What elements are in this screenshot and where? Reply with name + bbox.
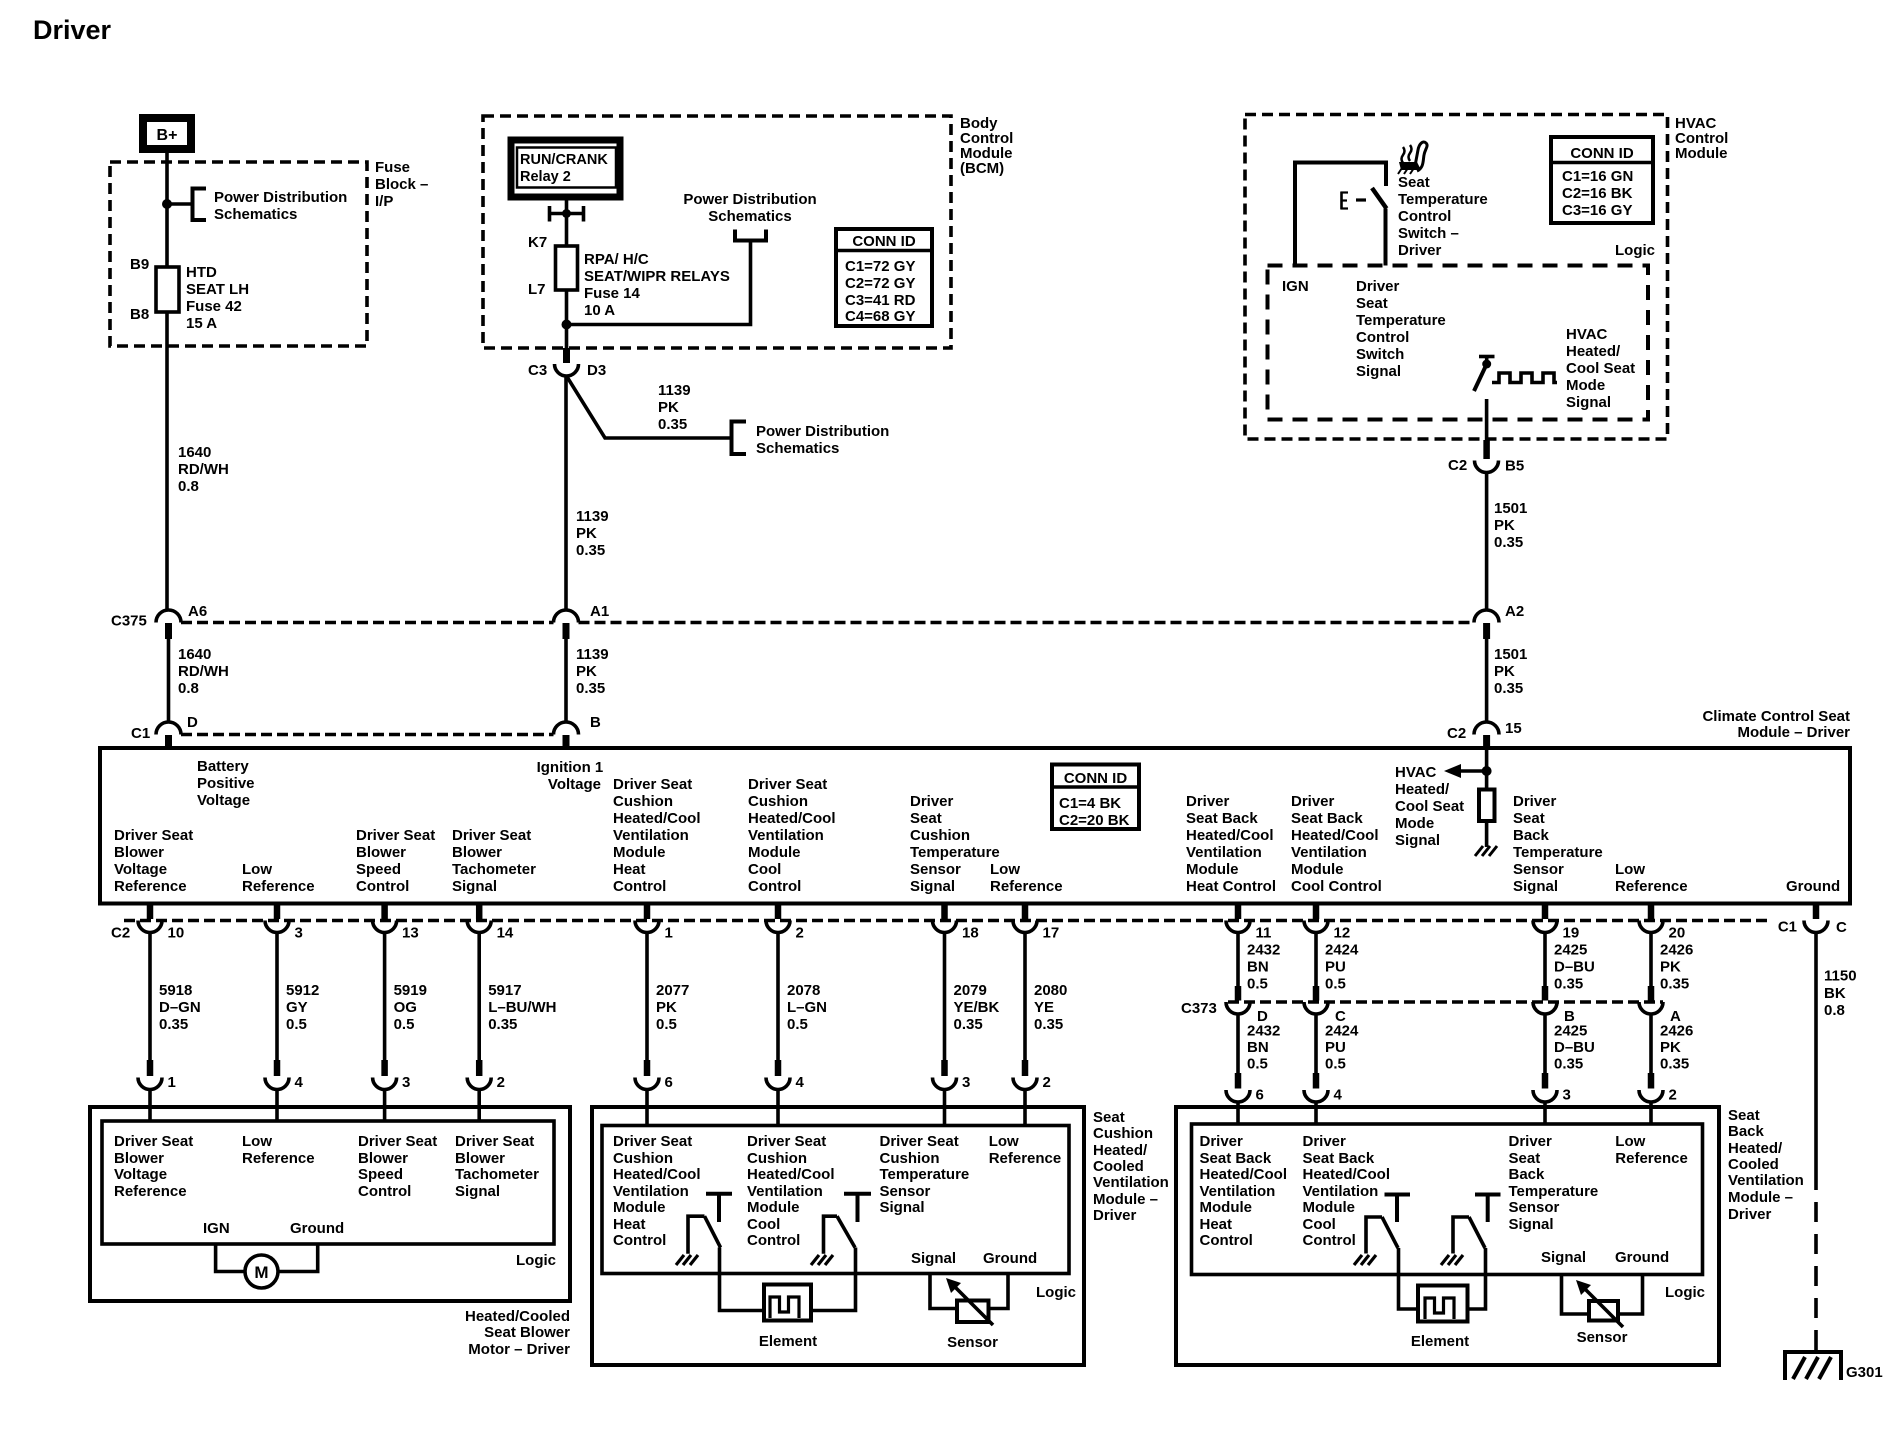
pin label cushion temperature sensor signal xyxy=(910,793,1000,895)
svg-text:Temperature: Temperature xyxy=(1356,312,1446,329)
seat back sensor xyxy=(1576,1280,1628,1346)
ground hatch cool switch xyxy=(811,1255,833,1265)
connector row C2 dashed line xyxy=(124,919,1772,923)
cushion label temperature sensor xyxy=(880,1133,970,1216)
svg-text:Voltage: Voltage xyxy=(114,861,167,878)
off-page bracket power distribution BCM xyxy=(735,230,766,241)
svg-text:D–BU: D–BU xyxy=(1554,959,1595,976)
svg-text:C375: C375 xyxy=(111,613,147,630)
svg-text:C: C xyxy=(1836,919,1847,936)
wire to power distribution tap xyxy=(167,202,193,206)
svg-text:D–BU: D–BU xyxy=(1554,1039,1595,1056)
svg-text:17: 17 xyxy=(1043,925,1060,942)
node junction in fuse block xyxy=(162,199,172,209)
wire C3/D3 down to A1 xyxy=(564,376,568,610)
svg-text:Signal: Signal xyxy=(911,1250,956,1267)
svg-text:Sensor: Sensor xyxy=(880,1183,931,1200)
svg-text:Reference: Reference xyxy=(1615,878,1688,895)
svg-text:0.5: 0.5 xyxy=(656,1016,677,1033)
svg-text:Control: Control xyxy=(748,878,801,895)
svg-text:Voltage: Voltage xyxy=(548,776,601,793)
svg-text:Heated/Cooled: Heated/Cooled xyxy=(465,1308,570,1325)
svg-text:Cool Seat: Cool Seat xyxy=(1395,798,1464,815)
wire resistor to internal ground xyxy=(1485,821,1489,847)
wire Ground to motor xyxy=(279,1244,318,1272)
wire label 2426 PK 0.35 lower xyxy=(1660,1023,1693,1073)
connector C2 pin 18 xyxy=(933,904,979,942)
wire seat back sensor signal xyxy=(1562,1275,1590,1315)
wire label 2078 L-GN 0.5 xyxy=(787,982,827,1033)
svg-text:1: 1 xyxy=(665,925,673,942)
svg-text:GY: GY xyxy=(286,999,308,1016)
svg-text:RUN/CRANK: RUN/CRANK xyxy=(520,152,608,168)
svg-text:B8: B8 xyxy=(130,306,149,323)
svg-text:5912: 5912 xyxy=(286,982,319,999)
ground hatch heat switch xyxy=(676,1255,698,1265)
svg-text:Sensor: Sensor xyxy=(1509,1199,1560,1216)
fuse F14 RPA/H/C xyxy=(528,234,730,319)
svg-text:OG: OG xyxy=(394,999,417,1016)
wire pin13 down xyxy=(383,933,387,1061)
svg-text:Driver Seat: Driver Seat xyxy=(748,776,827,793)
svg-text:K7: K7 xyxy=(528,234,547,251)
svg-text:C2: C2 xyxy=(111,925,130,942)
svg-text:12: 12 xyxy=(1334,925,1351,942)
HVAC mode signal label inside module xyxy=(1395,764,1464,849)
svg-text:Tachometer: Tachometer xyxy=(455,1166,539,1183)
connector C2 pin 20 xyxy=(1639,904,1685,942)
svg-text:Driver: Driver xyxy=(1509,1133,1553,1150)
CONN ID table module xyxy=(1052,765,1139,830)
wire label 2425 D-BU 0.35 xyxy=(1554,942,1595,993)
switch label xyxy=(1398,174,1488,259)
svg-text:Low: Low xyxy=(1615,861,1645,878)
fuse F42 HTD SEAT LH xyxy=(130,256,249,332)
svg-text:Back: Back xyxy=(1513,827,1550,844)
svg-text:Cool: Cool xyxy=(1303,1216,1336,1233)
blower label low reference xyxy=(242,1133,315,1167)
blower motor module outer box xyxy=(90,1107,570,1301)
svg-text:2079: 2079 xyxy=(954,982,987,999)
svg-text:SEAT LH: SEAT LH xyxy=(186,281,249,298)
svg-text:2425: 2425 xyxy=(1554,942,1587,959)
svg-text:Control: Control xyxy=(1356,329,1409,346)
cushion module logic inner box xyxy=(602,1126,1069,1274)
svg-text:Reference: Reference xyxy=(1615,1150,1688,1167)
BCM label xyxy=(960,115,1013,177)
driver seat temperature control switch signal label xyxy=(1356,278,1446,380)
svg-text:1501: 1501 xyxy=(1494,646,1527,663)
svg-text:Signal: Signal xyxy=(452,878,497,895)
svg-text:Driver: Driver xyxy=(1093,1207,1137,1224)
svg-text:0.5: 0.5 xyxy=(1247,976,1268,993)
svg-text:2: 2 xyxy=(796,925,804,942)
svg-text:4: 4 xyxy=(796,1074,805,1091)
svg-text:G301: G301 xyxy=(1846,1364,1883,1381)
svg-text:Signal: Signal xyxy=(455,1183,500,1200)
connector C2 pin 11 xyxy=(1226,904,1271,942)
svg-text:1640: 1640 xyxy=(178,444,211,461)
svg-text:10: 10 xyxy=(168,925,185,942)
svg-text:Control: Control xyxy=(358,1183,411,1200)
svg-text:Back: Back xyxy=(1728,1123,1765,1140)
svg-text:0.35: 0.35 xyxy=(1554,976,1583,993)
wire C373 B down xyxy=(1543,1014,1547,1073)
svg-text:Ventilation: Ventilation xyxy=(1200,1183,1276,1200)
svg-text:Heated/Cool: Heated/Cool xyxy=(613,1166,701,1183)
svg-text:L–BU/WH: L–BU/WH xyxy=(488,999,556,1016)
svg-text:2432: 2432 xyxy=(1247,1023,1280,1040)
svg-text:Ventilation: Ventilation xyxy=(748,827,824,844)
svg-text:Seat: Seat xyxy=(1356,295,1388,312)
wire label 5918 D-GN 0.35 xyxy=(159,982,201,1033)
svg-text:Module: Module xyxy=(1303,1199,1356,1216)
blower module name xyxy=(465,1308,570,1358)
svg-text:BN: BN xyxy=(1247,959,1269,976)
connector cushion pin 2 xyxy=(1013,1060,1051,1126)
seat back label heat control xyxy=(1200,1133,1288,1249)
svg-text:SEAT/WIPR RELAYS: SEAT/WIPR RELAYS xyxy=(584,268,730,285)
svg-text:Control: Control xyxy=(1303,1232,1356,1249)
connector cushion pin 6 xyxy=(635,1060,673,1126)
wire A2 to 15 xyxy=(1485,639,1489,722)
ground G301 xyxy=(1785,1352,1883,1381)
connector C373 pin D xyxy=(1226,986,1268,1025)
svg-text:Speed: Speed xyxy=(356,861,401,878)
climate control seat module box xyxy=(100,748,1850,904)
svg-text:Reference: Reference xyxy=(242,1150,315,1167)
B+ battery feed symbol xyxy=(143,118,191,149)
pin label driver seat blower speed control xyxy=(356,827,435,895)
svg-text:20: 20 xyxy=(1669,925,1686,942)
svg-text:Low: Low xyxy=(989,1133,1019,1150)
seat back label temperature sensor xyxy=(1509,1133,1599,1233)
svg-text:PU: PU xyxy=(1325,959,1346,976)
svg-text:Low: Low xyxy=(990,861,1020,878)
svg-text:Signal: Signal xyxy=(910,878,955,895)
wire label 2424 PU 0.5 lower xyxy=(1325,1023,1359,1073)
pin label driver seat blower voltage reference xyxy=(114,827,193,895)
svg-text:18: 18 xyxy=(962,925,979,942)
svg-text:Logic: Logic xyxy=(1615,242,1655,259)
svg-text:Cool: Cool xyxy=(748,861,781,878)
svg-text:Module: Module xyxy=(747,1199,800,1216)
HVAC control module dashed box xyxy=(1245,115,1668,440)
blower label speed control xyxy=(358,1133,437,1200)
svg-text:Ventilation: Ventilation xyxy=(1303,1183,1379,1200)
svg-text:Seat: Seat xyxy=(1398,174,1430,191)
svg-text:Ignition 1: Ignition 1 xyxy=(537,759,604,776)
svg-text:Driver: Driver xyxy=(1291,793,1335,810)
wire label 2426 PK 0.35 xyxy=(1660,942,1693,993)
svg-text:0.8: 0.8 xyxy=(1824,1002,1845,1019)
svg-text:1139: 1139 xyxy=(576,508,609,525)
svg-text:BK: BK xyxy=(1824,985,1846,1002)
svg-text:Logic: Logic xyxy=(1036,1284,1076,1301)
svg-text:Temperature: Temperature xyxy=(1513,844,1603,861)
wire 15 into module with arrow tap xyxy=(1485,750,1489,790)
wire pin20 down xyxy=(1649,933,1653,987)
svg-text:Fuse 14: Fuse 14 xyxy=(584,285,641,302)
blower motor logic inner box xyxy=(102,1121,554,1244)
wire pin18 down xyxy=(943,933,947,1061)
svg-text:Module: Module xyxy=(613,844,666,861)
svg-text:Mode: Mode xyxy=(1566,377,1605,394)
svg-text:Driver: Driver xyxy=(1186,793,1230,810)
fuse block label xyxy=(375,159,428,210)
svg-text:2080: 2080 xyxy=(1034,982,1067,999)
svg-text:2426: 2426 xyxy=(1660,1023,1693,1040)
wire label 1150 BK 0.8 xyxy=(1824,968,1857,1020)
wire label 5917 L-BU/WH 0.35 xyxy=(488,982,556,1033)
connector C2 pin 1 xyxy=(635,904,673,942)
svg-text:0.5: 0.5 xyxy=(1325,976,1346,993)
svg-text:PK: PK xyxy=(1660,1039,1681,1056)
wire label 1139 PK 0.35 xyxy=(576,508,609,559)
connector C2/B5 xyxy=(1448,440,1524,475)
relay RUN/CRANK Relay 2 xyxy=(511,140,620,197)
wire sensor ground xyxy=(989,1274,1009,1309)
wire seat back cool switch to element xyxy=(1468,1248,1486,1309)
seat back module logic inner box xyxy=(1192,1124,1703,1275)
svg-text:Back: Back xyxy=(1509,1166,1546,1183)
wire pin2 down xyxy=(776,933,780,1061)
svg-text:Ventilation: Ventilation xyxy=(613,1183,689,1200)
svg-text:C2: C2 xyxy=(1448,457,1467,474)
svg-text:Temperature: Temperature xyxy=(1509,1183,1599,1200)
svg-text:5919: 5919 xyxy=(394,982,427,999)
internal ground hatch xyxy=(1475,846,1497,856)
svg-text:Power Distribution: Power Distribution xyxy=(756,423,889,440)
off-page bracket power distribution lower xyxy=(732,422,747,455)
wire pin17 down xyxy=(1023,933,1027,1061)
wire diagonal to power distribution xyxy=(567,376,732,438)
svg-text:Module – Driver: Module – Driver xyxy=(1737,724,1850,741)
connector C1 pin B xyxy=(554,714,602,750)
svg-text:Heated/Cool: Heated/Cool xyxy=(613,810,701,827)
svg-text:0.35: 0.35 xyxy=(576,542,605,559)
svg-text:Driver Seat: Driver Seat xyxy=(613,776,692,793)
svg-text:Cool: Cool xyxy=(747,1216,780,1233)
svg-text:0.35: 0.35 xyxy=(1554,1056,1583,1073)
svg-text:Seat Back: Seat Back xyxy=(1291,810,1363,827)
svg-text:C2: C2 xyxy=(1447,725,1466,742)
svg-text:Blower: Blower xyxy=(358,1150,408,1167)
svg-text:Seat: Seat xyxy=(1509,1150,1541,1167)
svg-text:0.35: 0.35 xyxy=(954,1016,983,1033)
seat back module outer box xyxy=(1176,1107,1719,1365)
svg-text:Ventilation: Ventilation xyxy=(1291,844,1367,861)
wire pin19 down xyxy=(1543,933,1547,987)
svg-text:L–GN: L–GN xyxy=(787,999,827,1016)
connector C1 pin D xyxy=(131,714,198,750)
svg-text:Heat Control: Heat Control xyxy=(1186,878,1276,895)
svg-text:M: M xyxy=(254,1263,268,1282)
svg-text:0.35: 0.35 xyxy=(1660,976,1689,993)
connector blower pin 1 xyxy=(138,1060,176,1121)
svg-text:Heat: Heat xyxy=(613,861,646,878)
svg-text:IGN: IGN xyxy=(203,1220,230,1237)
wire pin3 down xyxy=(275,933,279,1061)
connector C373 pin C xyxy=(1304,986,1346,1025)
connector blower pin 2 xyxy=(467,1060,505,1121)
svg-text:A1: A1 xyxy=(590,603,609,620)
svg-text:Driver: Driver xyxy=(1200,1133,1244,1150)
connector C375 pin A1 xyxy=(554,603,610,639)
svg-text:5917: 5917 xyxy=(488,982,521,999)
pin label driver seat blower tachometer signal xyxy=(452,827,536,895)
svg-text:Heat: Heat xyxy=(613,1216,646,1233)
svg-text:0.8: 0.8 xyxy=(178,478,199,495)
svg-text:C1: C1 xyxy=(1778,919,1797,936)
wire C373 A down xyxy=(1649,1014,1653,1073)
svg-text:Signal: Signal xyxy=(1395,832,1440,849)
node junction below fuse 14 xyxy=(562,320,572,330)
svg-text:Seat: Seat xyxy=(1513,810,1545,827)
connector seat back pin 2 xyxy=(1639,1073,1677,1124)
svg-text:Battery: Battery xyxy=(197,758,249,775)
pin label low reference 17 xyxy=(990,861,1063,895)
seat back element xyxy=(1411,1286,1469,1351)
wire label 1501 PK 0.35 lower xyxy=(1494,646,1527,697)
connector C373 pin B xyxy=(1533,986,1575,1025)
pin label seat back temperature sensor signal xyxy=(1513,793,1603,895)
wire cool switch to element xyxy=(812,1248,856,1311)
svg-text:0.35: 0.35 xyxy=(1034,1016,1063,1033)
pin label low reference 20 xyxy=(1615,861,1688,895)
svg-text:Driver: Driver xyxy=(1356,278,1400,295)
wire B+ down to fuse 42 xyxy=(165,149,169,267)
svg-text:Voltage: Voltage xyxy=(114,1166,167,1183)
CONN ID table BCM xyxy=(836,229,932,326)
wire sensor signal xyxy=(930,1274,957,1309)
wire C373 C down xyxy=(1314,1014,1318,1073)
svg-text:0.5: 0.5 xyxy=(1325,1056,1346,1073)
wire relay to fuse 14 xyxy=(565,197,569,246)
wire heat switch to element xyxy=(720,1248,765,1311)
wire junction to power distribution tap xyxy=(567,241,751,325)
wire IGN to motor xyxy=(216,1244,245,1272)
wire pin11 down xyxy=(1236,933,1240,987)
svg-text:Heated/Cool: Heated/Cool xyxy=(747,1166,835,1183)
svg-text:2426: 2426 xyxy=(1660,942,1693,959)
pin label low reference xyxy=(242,861,315,895)
wire pin12 down xyxy=(1314,933,1318,987)
fuse block dashed box xyxy=(110,162,367,346)
wire label 1139 PK 0.35 lower xyxy=(576,646,609,697)
wire B5 down to A2 xyxy=(1485,473,1489,611)
heated seat icon xyxy=(1398,142,1427,174)
connector C2 pin 2 xyxy=(766,904,804,942)
svg-text:1139: 1139 xyxy=(576,646,609,663)
svg-text:C2=20 BK: C2=20 BK xyxy=(1059,812,1130,829)
svg-text:3: 3 xyxy=(962,1074,970,1091)
wire label 2080 YE 0.35 xyxy=(1034,982,1067,1033)
wire label 1640 RD/WH 0.8 lower xyxy=(178,646,229,697)
svg-text:Module: Module xyxy=(1291,861,1344,878)
svg-text:Driver Seat: Driver Seat xyxy=(114,827,193,844)
svg-text:D–GN: D–GN xyxy=(159,999,201,1016)
svg-text:Blower: Blower xyxy=(114,844,164,861)
connector C375 pin A2 xyxy=(1474,603,1524,639)
battery positive voltage label xyxy=(197,758,255,809)
svg-text:Heated/Cool: Heated/Cool xyxy=(1303,1166,1391,1183)
svg-text:Element: Element xyxy=(1411,1333,1469,1350)
svg-text:Control: Control xyxy=(613,878,666,895)
svg-text:HVAC: HVAC xyxy=(1395,764,1437,781)
svg-text:Driver Seat: Driver Seat xyxy=(358,1133,437,1150)
connector C375 pin A6 xyxy=(111,603,207,639)
connector seat back pin 3 xyxy=(1533,1073,1571,1124)
svg-text:PK: PK xyxy=(1660,959,1681,976)
svg-text:2424: 2424 xyxy=(1325,942,1359,959)
svg-text:IGN: IGN xyxy=(1282,278,1309,295)
svg-text:Ventilation: Ventilation xyxy=(613,827,689,844)
svg-text:(BCM): (BCM) xyxy=(960,160,1004,177)
svg-text:15 A: 15 A xyxy=(186,315,217,332)
svg-text:Module –: Module – xyxy=(1728,1189,1793,1206)
svg-text:YE/BK: YE/BK xyxy=(954,999,1000,1016)
svg-text:Driver: Driver xyxy=(910,793,954,810)
svg-text:Temperature: Temperature xyxy=(910,844,1000,861)
wire fuse42 down to C375 xyxy=(165,312,169,610)
connector C2 pin 10 xyxy=(138,904,184,942)
svg-text:Driver Seat: Driver Seat xyxy=(880,1133,959,1150)
wire label 5912 GY 0.5 xyxy=(286,982,319,1033)
svg-text:Mode: Mode xyxy=(1395,815,1434,832)
svg-text:0.5: 0.5 xyxy=(787,1016,808,1033)
svg-text:3: 3 xyxy=(1563,1087,1571,1104)
seat back label cool control xyxy=(1303,1133,1391,1249)
svg-text:Module: Module xyxy=(748,844,801,861)
svg-text:CONN ID: CONN ID xyxy=(852,233,916,250)
svg-text:Module: Module xyxy=(1200,1199,1253,1216)
svg-text:Cool Seat: Cool Seat xyxy=(1566,360,1635,377)
svg-text:Cushion: Cushion xyxy=(910,827,970,844)
square wave symbol xyxy=(1492,373,1557,383)
wire fuse14 down through BCM edge xyxy=(565,290,569,350)
svg-text:13: 13 xyxy=(402,925,419,942)
svg-text:PK: PK xyxy=(656,999,677,1016)
svg-text:Driver: Driver xyxy=(1303,1133,1347,1150)
svg-text:Power Distribution: Power Distribution xyxy=(214,189,347,206)
svg-text:Driver Seat: Driver Seat xyxy=(356,827,435,844)
connector C3/D3 xyxy=(528,348,606,379)
svg-text:1139: 1139 xyxy=(658,382,691,399)
svg-text:2: 2 xyxy=(1669,1087,1677,1104)
svg-text:Blower: Blower xyxy=(455,1150,505,1167)
svg-text:Speed: Speed xyxy=(358,1166,403,1183)
svg-text:Heated/: Heated/ xyxy=(1093,1142,1148,1159)
cushion element xyxy=(759,1285,817,1351)
ground hatch seat back heat xyxy=(1354,1255,1376,1265)
pin label cushion module cool control xyxy=(748,776,836,895)
svg-text:BN: BN xyxy=(1247,1039,1269,1056)
svg-text:0.5: 0.5 xyxy=(394,1016,415,1033)
wire label 1640 RD/WH 0.8 xyxy=(178,444,229,495)
svg-text:0.35: 0.35 xyxy=(1660,1056,1689,1073)
svg-text:Module: Module xyxy=(1186,861,1239,878)
svg-text:Signal: Signal xyxy=(1541,1249,1586,1266)
cushion label cool control xyxy=(747,1133,835,1249)
svg-text:Driver: Driver xyxy=(1398,242,1442,259)
svg-text:Signal: Signal xyxy=(1356,363,1401,380)
pin label seat back module cool control xyxy=(1291,793,1382,895)
svg-text:Tachometer: Tachometer xyxy=(452,861,536,878)
svg-text:5918: 5918 xyxy=(159,982,192,999)
svg-text:Heated/: Heated/ xyxy=(1395,781,1450,798)
cushion label heat control xyxy=(613,1133,701,1249)
